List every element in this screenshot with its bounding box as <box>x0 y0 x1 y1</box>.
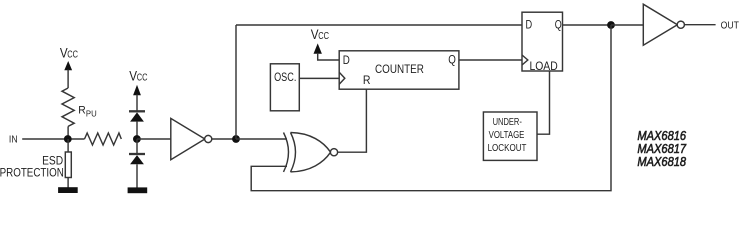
diode D1 (node to VCC) <box>129 111 145 139</box>
ground (under ESD) <box>58 187 78 193</box>
wire top rail to flip-flop D input <box>236 24 522 26</box>
inverter U1 <box>171 118 212 159</box>
wire U3 to OUT <box>684 24 715 26</box>
node Q junction <box>607 21 615 29</box>
XNOR gate U2 <box>284 133 338 172</box>
power VCC symbol (counter D input) <box>311 27 340 60</box>
wire node A to XNOR top input <box>236 138 287 140</box>
power VCC symbol (above clamp diodes) <box>129 69 147 111</box>
diode D2 (ground to node) <box>129 139 145 188</box>
svg-text:R: R <box>363 75 371 88</box>
label ESD PROTECTION <box>0 155 64 180</box>
svg-text:D: D <box>526 20 533 32</box>
wire clamp node to inverter U1 <box>137 138 171 140</box>
svg-text:IN: IN <box>9 134 18 145</box>
wire OSC to counter clock <box>299 77 339 79</box>
wire node A up to top rail <box>235 25 237 139</box>
wire IN lead <box>22 138 84 140</box>
svg-text:CC: CC <box>318 30 329 41</box>
power VCC symbol (left, above RPU) <box>60 46 78 88</box>
label MAX6816/MAX6817/MAX6818 part numbers <box>637 128 687 169</box>
svg-text:LOCKOUT: LOCKOUT <box>488 142 527 153</box>
svg-text:CC: CC <box>67 48 78 59</box>
node junction clamp diodes <box>133 135 141 143</box>
oscillator OSC block <box>270 64 299 111</box>
wire RPU to node <box>67 126 69 139</box>
wire flip-flop Q to output node <box>563 24 612 26</box>
node A junction <box>232 135 240 143</box>
D flip-flop block <box>522 12 563 73</box>
svg-text:MAX6818: MAX6818 <box>637 154 686 169</box>
svg-text:Q: Q <box>555 20 562 32</box>
svg-text:OUT: OUT <box>721 20 740 31</box>
wire node to ESD box <box>67 139 69 152</box>
svg-text:OSC.: OSC. <box>274 71 296 85</box>
label RPU <box>78 104 97 118</box>
svg-text:PU: PU <box>86 109 97 118</box>
node junction IN/RPU/ESD <box>64 135 72 143</box>
svg-text:COUNTER: COUNTER <box>375 63 424 76</box>
svg-text:Q: Q <box>448 54 456 67</box>
counter block <box>339 51 459 89</box>
svg-text:CC: CC <box>137 72 148 83</box>
wire counter Q to flip-flop clock <box>459 59 522 61</box>
ground (under diode D2) <box>128 187 148 193</box>
wire flip-flop LOAD to UVLO <box>537 71 550 134</box>
svg-text:VOLTAGE: VOLTAGE <box>489 129 525 140</box>
wire node Q to inverter U3 <box>611 24 643 26</box>
resistor series (IN to clamp node) <box>85 133 122 145</box>
wire feedback node Q to XNOR bottom input <box>251 25 611 191</box>
svg-text:ESD: ESD <box>42 155 63 168</box>
ESD protection element <box>65 152 71 178</box>
svg-text:PROTECTION: PROTECTION <box>0 167 64 180</box>
wire U1 output to node A <box>212 138 236 140</box>
inverter U3 (output buffer) <box>643 4 684 45</box>
wire ESD box to ground <box>67 178 69 189</box>
svg-text:LOAD: LOAD <box>530 61 558 74</box>
under-voltage lockout block <box>483 112 537 160</box>
svg-text:UNDER-: UNDER- <box>493 116 522 127</box>
wire XNOR output to counter R input <box>337 89 366 152</box>
svg-text:D: D <box>343 54 350 67</box>
svg-text:R: R <box>78 104 86 116</box>
resistor RPU <box>62 88 74 126</box>
